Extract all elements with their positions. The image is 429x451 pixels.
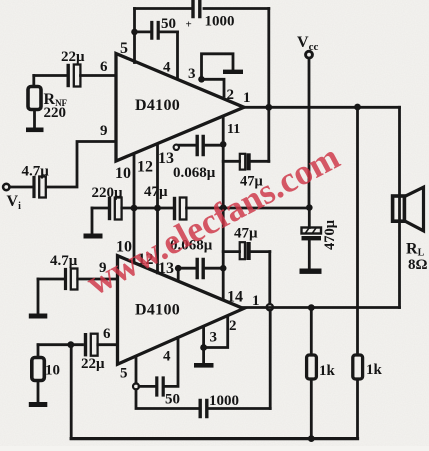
svg-text:D4100: D4100: [135, 302, 180, 319]
node pin6 U2 dot: [67, 341, 74, 348]
op-amp U2 D4100: [118, 256, 244, 365]
capacitor C 47u U2 feedback: [240, 242, 245, 259]
svg-text:1000: 1000: [209, 393, 239, 409]
svg-text:220: 220: [44, 105, 67, 121]
node bus dot x223: [220, 204, 227, 211]
svg-text:3: 3: [188, 66, 196, 82]
ground pin3 U1: [223, 70, 243, 74]
capacitor C 1000 bottom plates: [200, 401, 207, 417]
node pin5 junction dot: [131, 29, 138, 36]
wire 50pF cap leads U1: [135, 30, 178, 33]
wire 220u to ground: [91, 208, 94, 234]
capacitor C 0.068u U1 plates: [197, 137, 203, 155]
svg-text:0.068μ: 0.068μ: [173, 165, 216, 181]
capacitor C 4.7u input plates: [32, 178, 35, 197]
wire top feedback rail right segment: [204, 7, 269, 10]
wire output rail U1: [244, 106, 400, 109]
wire pin13 U2 stub: [177, 268, 180, 280]
wire Vcc vertical: [308, 58, 311, 207]
svg-text:4: 4: [163, 60, 171, 76]
svg-text:2: 2: [229, 318, 237, 334]
wire pin5 to bottom 1000 rail: [136, 390, 270, 409]
wire 0.068u U2 leads: [178, 267, 223, 270]
svg-text:11: 11: [227, 122, 240, 137]
svg-text:4.7μ: 4.7μ: [22, 164, 50, 180]
node output U2 ring: [267, 304, 273, 310]
wire 50 cap U2 leads: [139, 337, 178, 386]
svg-text:3: 3: [210, 330, 218, 346]
svg-text:4: 4: [163, 349, 171, 365]
wire RNF to ground: [33, 110, 36, 129]
svg-text:4.7μ: 4.7μ: [50, 253, 78, 269]
svg-text:5: 5: [120, 40, 128, 57]
node pin13 U1 ring: [174, 145, 179, 150]
ground 470u: [300, 269, 322, 274]
wire bias bus: [92, 207, 309, 210]
ground RNF: [26, 128, 44, 133]
wire top feedback rail left segment: [135, 7, 193, 10]
resistor R 1k left: [310, 308, 313, 355]
wire pin11 U1 long vertical: [222, 116, 225, 299]
node dot 0.068u right U1: [220, 141, 227, 148]
wire pin9 U1: [47, 142, 117, 188]
svg-text:5: 5: [120, 366, 128, 382]
svg-text:1k: 1k: [366, 362, 383, 378]
capacitor C 50 U2 plates: [157, 378, 163, 395]
node Vcc terminal: [306, 51, 313, 58]
capacitor C 22u plates: [66, 66, 69, 86]
svg-text:470μ: 470μ: [322, 219, 338, 250]
svg-text:22μ: 22μ: [61, 49, 85, 65]
wire speaker drop: [398, 107, 401, 307]
wire pin4 U1 vertical: [176, 32, 179, 79]
resistor RNF 220 body: [28, 87, 41, 110]
node Vcc bus dot: [306, 204, 313, 211]
svg-text:50: 50: [165, 392, 180, 408]
svg-text:+: +: [186, 19, 192, 31]
wire to resistor 10: [37, 345, 40, 358]
node output U2 dot x311: [308, 304, 315, 311]
wire pin3 U2: [202, 327, 205, 348]
capacitor C 470u: [308, 208, 311, 228]
wire Vi to cap: [10, 186, 33, 189]
wire pin5 U1 vertical: [133, 9, 136, 63]
wire 47u U2 drop to output: [268, 252, 271, 304]
svg-text:2: 2: [227, 87, 235, 103]
svg-text:1k: 1k: [319, 363, 336, 379]
node Vi input terminal: [3, 184, 9, 190]
ground pin3 U2: [194, 363, 214, 368]
ground 220u: [84, 234, 103, 239]
wire pin10 U1 to pin10 U2: [133, 154, 136, 263]
wire pin6 node to bottom rail: [70, 345, 73, 439]
svg-text:D4100: D4100: [135, 97, 180, 114]
node bus dot x134: [131, 205, 138, 212]
capacitor C 47u U1 feedback: [240, 154, 245, 170]
svg-text:47μ: 47μ: [144, 184, 168, 200]
node pin5 U2 ring: [133, 383, 139, 389]
speaker RL driver: [393, 196, 405, 221]
wire 47u U1 leads: [223, 160, 269, 163]
resistor R 10 body: [32, 358, 45, 381]
node dot 0.068u right U2: [220, 265, 227, 272]
ground 4.7u U2: [29, 314, 48, 319]
svg-text:9: 9: [100, 123, 108, 139]
svg-text:8Ω: 8Ω: [408, 257, 428, 273]
svg-text:10: 10: [45, 363, 60, 379]
capacitor C 0.068u U2 plates: [197, 260, 203, 278]
capacitor C 47u bus plates: [173, 199, 176, 219]
wire pin3 U2 to ground: [202, 348, 205, 364]
capacitor C 50 plates U1: [152, 23, 158, 39]
wire 0.068u U1 leads: [179, 144, 223, 147]
wire 470u to ground: [308, 240, 311, 268]
wire pin2 U1 link: [202, 79, 225, 96]
wire resistor 10 to ground: [37, 381, 40, 403]
svg-text:1: 1: [252, 293, 260, 309]
node bus dot x157.5: [154, 205, 161, 212]
svg-text:220μ: 220μ: [92, 185, 124, 201]
wire bottom feedback rail: [71, 437, 357, 440]
svg-text:1: 1: [243, 90, 251, 106]
wire pin5 U2 stub: [135, 357, 138, 384]
node bottom rail dot: [308, 435, 315, 442]
ground resistor 10: [29, 402, 48, 407]
node output U1 dot at x268.8: [265, 104, 272, 111]
wire pin6 U2 net: [38, 343, 118, 346]
node output U1 dot at x357.5: [354, 104, 361, 111]
resistor R 1k right: [356, 107, 359, 355]
wire pin2 U2 link: [204, 316, 228, 348]
capacitor C 1000 top plates: [193, 1, 200, 17]
wire output feedback drop x268: [267, 9, 270, 162]
svg-text:12: 12: [137, 159, 153, 176]
capacitor C 220u plates: [108, 199, 111, 219]
wire 47u U2 leads: [223, 250, 270, 253]
svg-text:50: 50: [161, 16, 176, 32]
wire pin9 U2: [38, 278, 118, 281]
op-amp U1 D4100: [116, 54, 244, 162]
svg-text:22μ: 22μ: [81, 356, 105, 372]
capacitor C 4.7u U2 plates: [64, 270, 67, 289]
svg-text:13: 13: [158, 150, 174, 167]
svg-text:6: 6: [100, 59, 108, 75]
node pin3 U2 dot: [200, 344, 207, 351]
wire output rail U2: [244, 306, 400, 309]
node pin3 U1 dot: [198, 76, 205, 83]
speaker RL cone: [404, 187, 423, 231]
node pin13 U2 dot: [175, 265, 182, 272]
capacitor C 22u U2 plates: [84, 335, 87, 355]
svg-text:1000: 1000: [205, 14, 235, 30]
svg-text:10: 10: [115, 165, 131, 182]
wire pin12 U1 to pin12 U2: [156, 144, 159, 273]
wire 22u to pin6 U1: [34, 74, 116, 77]
wire 1000 rail up to output U2: [269, 310, 272, 408]
svg-text:6: 6: [103, 326, 111, 342]
wire pin3 U1 to ground: [202, 54, 234, 80]
wire down to RNF: [32, 76, 35, 87]
svg-text:14: 14: [227, 289, 243, 306]
wire 4.7u U2 to ground: [37, 279, 40, 314]
